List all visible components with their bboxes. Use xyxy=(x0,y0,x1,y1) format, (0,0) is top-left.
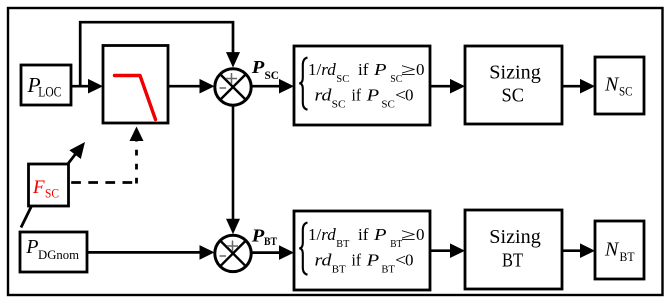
svg-text:1/rd: 1/rd xyxy=(308,60,337,79)
svg-text:Sizing: Sizing xyxy=(489,226,541,248)
svg-text:P: P xyxy=(373,60,387,79)
svg-text:SC: SC xyxy=(45,185,59,200)
svg-text:N: N xyxy=(604,238,620,260)
svg-text:BT: BT xyxy=(381,263,395,275)
svg-text:SC: SC xyxy=(619,83,633,98)
svg-text:P: P xyxy=(365,251,379,270)
svg-text:BT: BT xyxy=(620,249,635,264)
svg-text:LOC: LOC xyxy=(38,85,61,101)
svg-text:0: 0 xyxy=(416,60,425,79)
svg-text:P: P xyxy=(251,57,265,77)
svg-text:1/rd: 1/rd xyxy=(308,225,337,244)
svg-text:SC: SC xyxy=(381,98,395,110)
svg-text:Sizing: Sizing xyxy=(489,61,541,83)
svg-text:F: F xyxy=(32,177,45,198)
svg-text:≥: ≥ xyxy=(401,225,416,244)
svg-text:SC: SC xyxy=(336,73,349,85)
svg-text:if: if xyxy=(352,86,362,105)
svg-text:0: 0 xyxy=(416,225,425,244)
svg-text:rd: rd xyxy=(315,251,333,270)
svg-text:0: 0 xyxy=(405,251,414,270)
svg-text:P: P xyxy=(251,225,265,245)
svg-text:SC: SC xyxy=(265,70,280,82)
svg-text:if: if xyxy=(358,60,369,79)
svg-text:BT: BT xyxy=(502,249,523,271)
svg-text:BT: BT xyxy=(332,263,346,275)
svg-text:N: N xyxy=(604,74,620,96)
svg-text:rd: rd xyxy=(315,86,333,105)
svg-text:if: if xyxy=(352,251,362,270)
svg-text:P: P xyxy=(373,225,387,244)
svg-text:DGnom: DGnom xyxy=(38,247,79,262)
svg-text:SC: SC xyxy=(502,85,525,107)
svg-text:if: if xyxy=(358,225,369,244)
svg-text:≥: ≥ xyxy=(401,60,416,79)
svg-text:SC: SC xyxy=(332,98,346,110)
svg-text:P: P xyxy=(25,236,38,258)
svg-text:P: P xyxy=(365,86,379,105)
svg-text:0: 0 xyxy=(405,86,414,105)
svg-text:BT: BT xyxy=(264,236,277,248)
svg-text:BT: BT xyxy=(336,238,349,250)
